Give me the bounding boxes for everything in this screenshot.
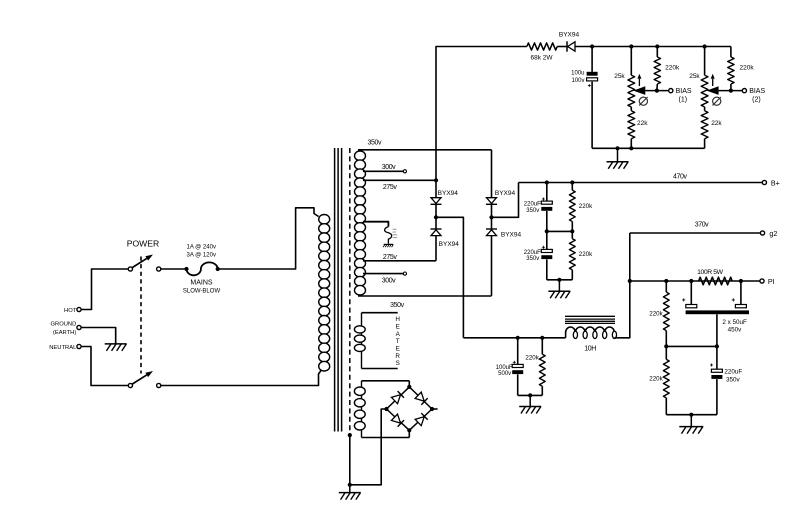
wire fuse F1 to transformer primary top — [218, 208, 319, 269]
svg-text:BYX94: BYX94 — [439, 241, 460, 248]
svg-text:NEUTRAL: NEUTRAL — [49, 345, 77, 351]
svg-text:A: A — [396, 331, 401, 338]
wire NEUTRAL to switch S1b — [81, 347, 128, 386]
wire BR1 DC+ stub — [432, 408, 438, 410]
svg-text:B+: B+ — [771, 178, 780, 187]
transformer T1 electrostatic shield (dashed) — [349, 148, 351, 435]
diode D4 BYX94 (350v positive rectifier) — [491, 150, 493, 198]
wire R9 bottom to C6 top link — [666, 345, 717, 347]
terminal GROUND (EARTH) — [77, 325, 81, 329]
svg-text:275v: 275v — [383, 184, 397, 191]
capacitor C1 100u 100v (bias reservoir) — [591, 47, 593, 72]
wire C4/R8 bottom — [518, 394, 543, 396]
svg-text:SLOW-BLOW: SLOW-BLOW — [183, 289, 221, 295]
wire 300v top tap (unused) — [363, 170, 403, 172]
resistor R9 220k (upper) — [665, 281, 667, 292]
capacitor C6 220uF 350v — [716, 368, 718, 370]
svg-text:25k: 25k — [614, 73, 625, 80]
center tap squiggle component — [385, 227, 392, 244]
wire BR1 DC- to ground rail — [381, 409, 386, 411]
svg-text:100v: 100v — [571, 78, 584, 84]
center tap tiny note text — [393, 228, 397, 231]
ground - mains earth — [115, 328, 117, 344]
node bias rail / VR2 top — [703, 44, 707, 48]
terminal PI — [760, 279, 764, 283]
wire g2 rail 370v — [630, 232, 761, 234]
ground - transformer shield — [349, 485, 351, 493]
fuse F1 MAINS SLOW-BLOW — [187, 262, 218, 275]
wire D4/D5 junction to B+ rail — [492, 183, 519, 218]
svg-text:BYX94: BYX94 — [495, 190, 516, 197]
svg-text:500v: 500v — [498, 371, 511, 377]
node VR1 wiper / R2 junction — [655, 89, 659, 93]
transformer T1 primary winding — [319, 215, 330, 225]
svg-text:E: E — [396, 345, 400, 352]
capacitor C5a 50uF (left of pair) — [690, 281, 692, 305]
svg-text:BIAS: BIAS — [676, 88, 692, 95]
svg-text:HOT: HOT — [64, 308, 77, 314]
wire choke input rail — [463, 337, 565, 339]
svg-text:g2: g2 — [769, 229, 777, 238]
svg-text:220k: 220k — [649, 375, 663, 382]
svg-text:10H: 10H — [584, 345, 596, 352]
svg-text:T: T — [396, 338, 400, 345]
node D4/D5 cathode junction (B+ feed) — [489, 215, 493, 219]
svg-text:(2): (2) — [752, 97, 761, 104]
svg-text:350v: 350v — [526, 208, 539, 214]
node C4 junction — [516, 336, 520, 340]
node BR1 bottom corner — [407, 428, 411, 432]
svg-text:350v: 350v — [726, 377, 741, 384]
svg-text:470v: 470v — [673, 173, 687, 180]
wire bridge winding top to bridge BR1 — [408, 381, 410, 387]
diode D1 BYX94 (bias rectifier) — [566, 41, 568, 51]
choke L1 core — [565, 315, 615, 317]
ground - B+ filter — [558, 280, 560, 292]
VR1 wiper arrow — [645, 90, 668, 92]
potentiometer VR2 25k + resistor R5 22k body — [704, 47, 706, 76]
node bias cap junction — [590, 44, 594, 48]
transformer T1 bridge winding — [361, 381, 363, 438]
svg-text:22k: 22k — [711, 120, 722, 127]
VR2 trimmer up-arrow — [712, 79, 714, 86]
wire choke output up to g2 — [614, 233, 629, 338]
svg-text:450v: 450v — [728, 327, 743, 334]
transformer T1 HV secondary winding — [355, 151, 366, 161]
terminal BIAS (1) — [669, 89, 673, 93]
wire GROUND to earth — [81, 328, 116, 344]
wire R1 to D1 — [557, 46, 567, 48]
svg-text:BYX94: BYX94 — [438, 190, 459, 197]
svg-text:220k: 220k — [649, 310, 663, 317]
svg-text:220uF: 220uF — [524, 250, 541, 256]
wire 300v bottom tap (unused) — [363, 273, 403, 275]
svg-text:3A @ 120v: 3A @ 120v — [187, 253, 216, 259]
node VR2 wiper / R3 junction — [729, 89, 733, 93]
node R8 junction — [540, 336, 544, 340]
svg-text:(1): (1) — [679, 97, 688, 104]
node bias ground junction — [615, 146, 619, 150]
ground - PI filter — [690, 415, 692, 427]
svg-text:POWER: POWER — [127, 239, 159, 249]
wire cap/bleeder midpoint link — [547, 230, 573, 232]
svg-text:350v: 350v — [368, 139, 382, 146]
resistor R11 100R 5W — [699, 277, 733, 285]
transformer T1 heater winding — [361, 313, 363, 369]
wire B+ rail 470v — [519, 182, 763, 184]
capacitor C2 220uF 350v (upper) — [546, 183, 548, 202]
terminal 300v bottom tap open end — [403, 272, 406, 275]
capacitor C5b 50uF (right of pair) — [740, 281, 742, 305]
svg-text:220uF: 220uF — [724, 369, 742, 376]
node BR1 top corner — [407, 385, 411, 389]
svg-text:BYX94: BYX94 — [501, 232, 522, 239]
wire HOT to switch S1a — [81, 269, 128, 310]
svg-text:350v: 350v — [526, 256, 539, 262]
VR2 wiper arrow — [719, 90, 743, 92]
ground - bias network — [617, 148, 619, 161]
svg-text:220k: 220k — [579, 251, 593, 258]
VR2 screw adjust symbol — [713, 97, 721, 105]
switch S1b (POWER) — [128, 383, 132, 387]
terminal NEUTRAL — [77, 344, 81, 348]
node BR1 left corner (DC-) — [384, 407, 388, 411]
wire D2/D3 junction to choke input rail — [436, 217, 463, 337]
wire PI filter bottom — [666, 414, 717, 416]
node PI branch junction — [628, 279, 632, 283]
wire 275v bottom tap to rectifier D3 — [363, 260, 436, 262]
node BR1 right corner (DC+) — [430, 407, 434, 411]
terminal BIAS (2) — [742, 89, 746, 93]
svg-text:1A @ 240v: 1A @ 240v — [187, 245, 216, 251]
svg-text:MAINS: MAINS — [190, 280, 213, 287]
wire bias rail top — [575, 46, 731, 48]
resistor R2 220k (bias 1 feed) — [656, 47, 658, 58]
node shield junction — [348, 433, 352, 437]
svg-text:GROUND: GROUND — [51, 322, 77, 328]
svg-text:370v: 370v — [695, 221, 709, 228]
wire switch S1b to transformer primary bottom — [161, 369, 322, 386]
svg-text:275v: 275v — [383, 254, 397, 261]
node D2/D3 cathode junction (440v rail feed) — [434, 215, 438, 219]
svg-text:100uF: 100uF — [496, 365, 513, 371]
diode D3 BYX94 (275v negative-half rectifier) — [435, 217, 437, 229]
svg-text:H: H — [395, 316, 400, 323]
node R9 top junction — [664, 279, 668, 283]
svg-text:220uF: 220uF — [524, 202, 541, 208]
node C5b junction — [739, 279, 743, 283]
ground - center tap — [387, 243, 389, 244]
wire HV center tap — [363, 222, 388, 227]
node B+ / C2 junction — [545, 180, 549, 184]
switch gang dashed link — [140, 257, 142, 374]
capacitor C4 100uF 500v — [517, 338, 519, 365]
node R9/R10 midpoint link junction — [715, 344, 719, 348]
bridge diode BR1-D1 (left-top arm) — [391, 391, 404, 404]
svg-text:(EARTH): (EARTH) — [53, 330, 76, 336]
resistor R8 220k — [541, 338, 543, 354]
svg-text:68k 2W: 68k 2W — [530, 55, 553, 62]
svg-text:S: S — [396, 360, 400, 367]
svg-text:220k: 220k — [525, 355, 539, 362]
capacitor C3 220uF 350v (lower) — [546, 231, 548, 249]
terminal HOT — [77, 307, 81, 311]
svg-text:220k: 220k — [665, 64, 680, 71]
node 275v tap junction — [434, 178, 438, 182]
capacitor C5 shared plate bar — [686, 310, 749, 314]
diode D2 BYX94 (275v positive rectifier) — [435, 180, 437, 197]
svg-text:220k: 220k — [579, 203, 593, 210]
svg-text:300v: 300v — [382, 278, 396, 285]
node shield/bridge ground junction — [348, 483, 352, 487]
svg-text:BYX94: BYX94 — [559, 31, 580, 38]
diode D5 BYX94 (350v negative-half rectifier) — [491, 217, 493, 229]
resistor R6 220k (upper bleeder) — [571, 183, 573, 191]
node R6/R7 midpoint — [570, 229, 574, 233]
node B+ / R6 junction — [570, 180, 574, 184]
svg-text:220k: 220k — [740, 64, 755, 71]
svg-text:100u: 100u — [571, 70, 584, 76]
VR1 screw adjust symbol — [639, 97, 647, 105]
node C2/C3 midpoint — [545, 229, 549, 233]
node bias rail / R2 top — [655, 44, 659, 48]
wire 350v bottom tap to rectifier D5 — [358, 295, 492, 297]
node R9 bottom junction — [664, 344, 668, 348]
svg-text:350v: 350v — [390, 302, 404, 309]
bridge rectifier BR1 frame — [387, 387, 433, 430]
resistor R3 220k (bias 2 feed) — [730, 47, 732, 58]
svg-text:100R 5W: 100R 5W — [697, 269, 724, 276]
node PI filter ground junction — [689, 413, 693, 417]
svg-text:2 x 50uF: 2 x 50uF — [722, 319, 747, 326]
wire switch S1a to fuse F1 — [161, 268, 187, 270]
svg-text:E: E — [396, 324, 400, 331]
resistor R10 220k (lower) — [665, 346, 667, 359]
bridge diode BR1-D4 (bottom-right arm) — [415, 413, 428, 426]
resistor R1 68k 2W — [527, 43, 557, 50]
wire 350v top tap to rectifier D4/D5 column — [358, 149, 492, 151]
wire PI rail — [630, 280, 760, 282]
transformer T1 core — [334, 148, 336, 432]
node potentiometer VR1 bottom junction — [629, 146, 633, 150]
node B+ filter ground junction — [557, 278, 561, 282]
resistor R7 220k (lower bleeder) — [571, 231, 573, 238]
wire C5 bar down to C6 — [716, 314, 718, 369]
bridge diode BR1-D2 (top-right arm) — [415, 392, 428, 405]
bridge diode BR1-D3 (left-bottom arm) — [391, 414, 404, 427]
ground - choke input filter — [529, 395, 531, 406]
terminal 300v top tap open end — [403, 170, 406, 173]
svg-text:PI: PI — [768, 277, 775, 286]
switch S1a (POWER) — [128, 267, 132, 271]
wire 275v top tap to bias feed / rectifier D2/D3 column — [363, 179, 436, 181]
node C4/R8 ground junction — [528, 393, 532, 397]
svg-text:BIAS: BIAS — [749, 88, 765, 95]
choke L1 10H winding — [566, 327, 615, 338]
wire B+ filter bottom — [547, 279, 573, 281]
svg-text:R: R — [395, 353, 400, 360]
svg-text:25k: 25k — [689, 73, 700, 80]
wire bias feed from 275v tap up to 68k resistor — [436, 47, 527, 181]
terminal g2 — [760, 231, 764, 235]
wire bias bottom rail — [592, 147, 705, 149]
node bias rail / VR1 top — [629, 44, 633, 48]
node C5a junction — [689, 279, 693, 283]
terminal B+ — [762, 180, 766, 184]
svg-text:22k: 22k — [637, 120, 648, 127]
svg-text:300v: 300v — [382, 164, 396, 171]
node potentiometer VR2 bottom corner — [0, 0, 1, 1]
wire bridge winding bottom to bridge BR1 — [408, 430, 410, 437]
potentiometer VR1 25k + resistor R4 22k body — [630, 47, 632, 76]
wire shield to ground — [349, 435, 351, 485]
VR1 trimmer up-arrow — [638, 79, 640, 86]
wire bridge negative to ground junction — [350, 411, 381, 485]
